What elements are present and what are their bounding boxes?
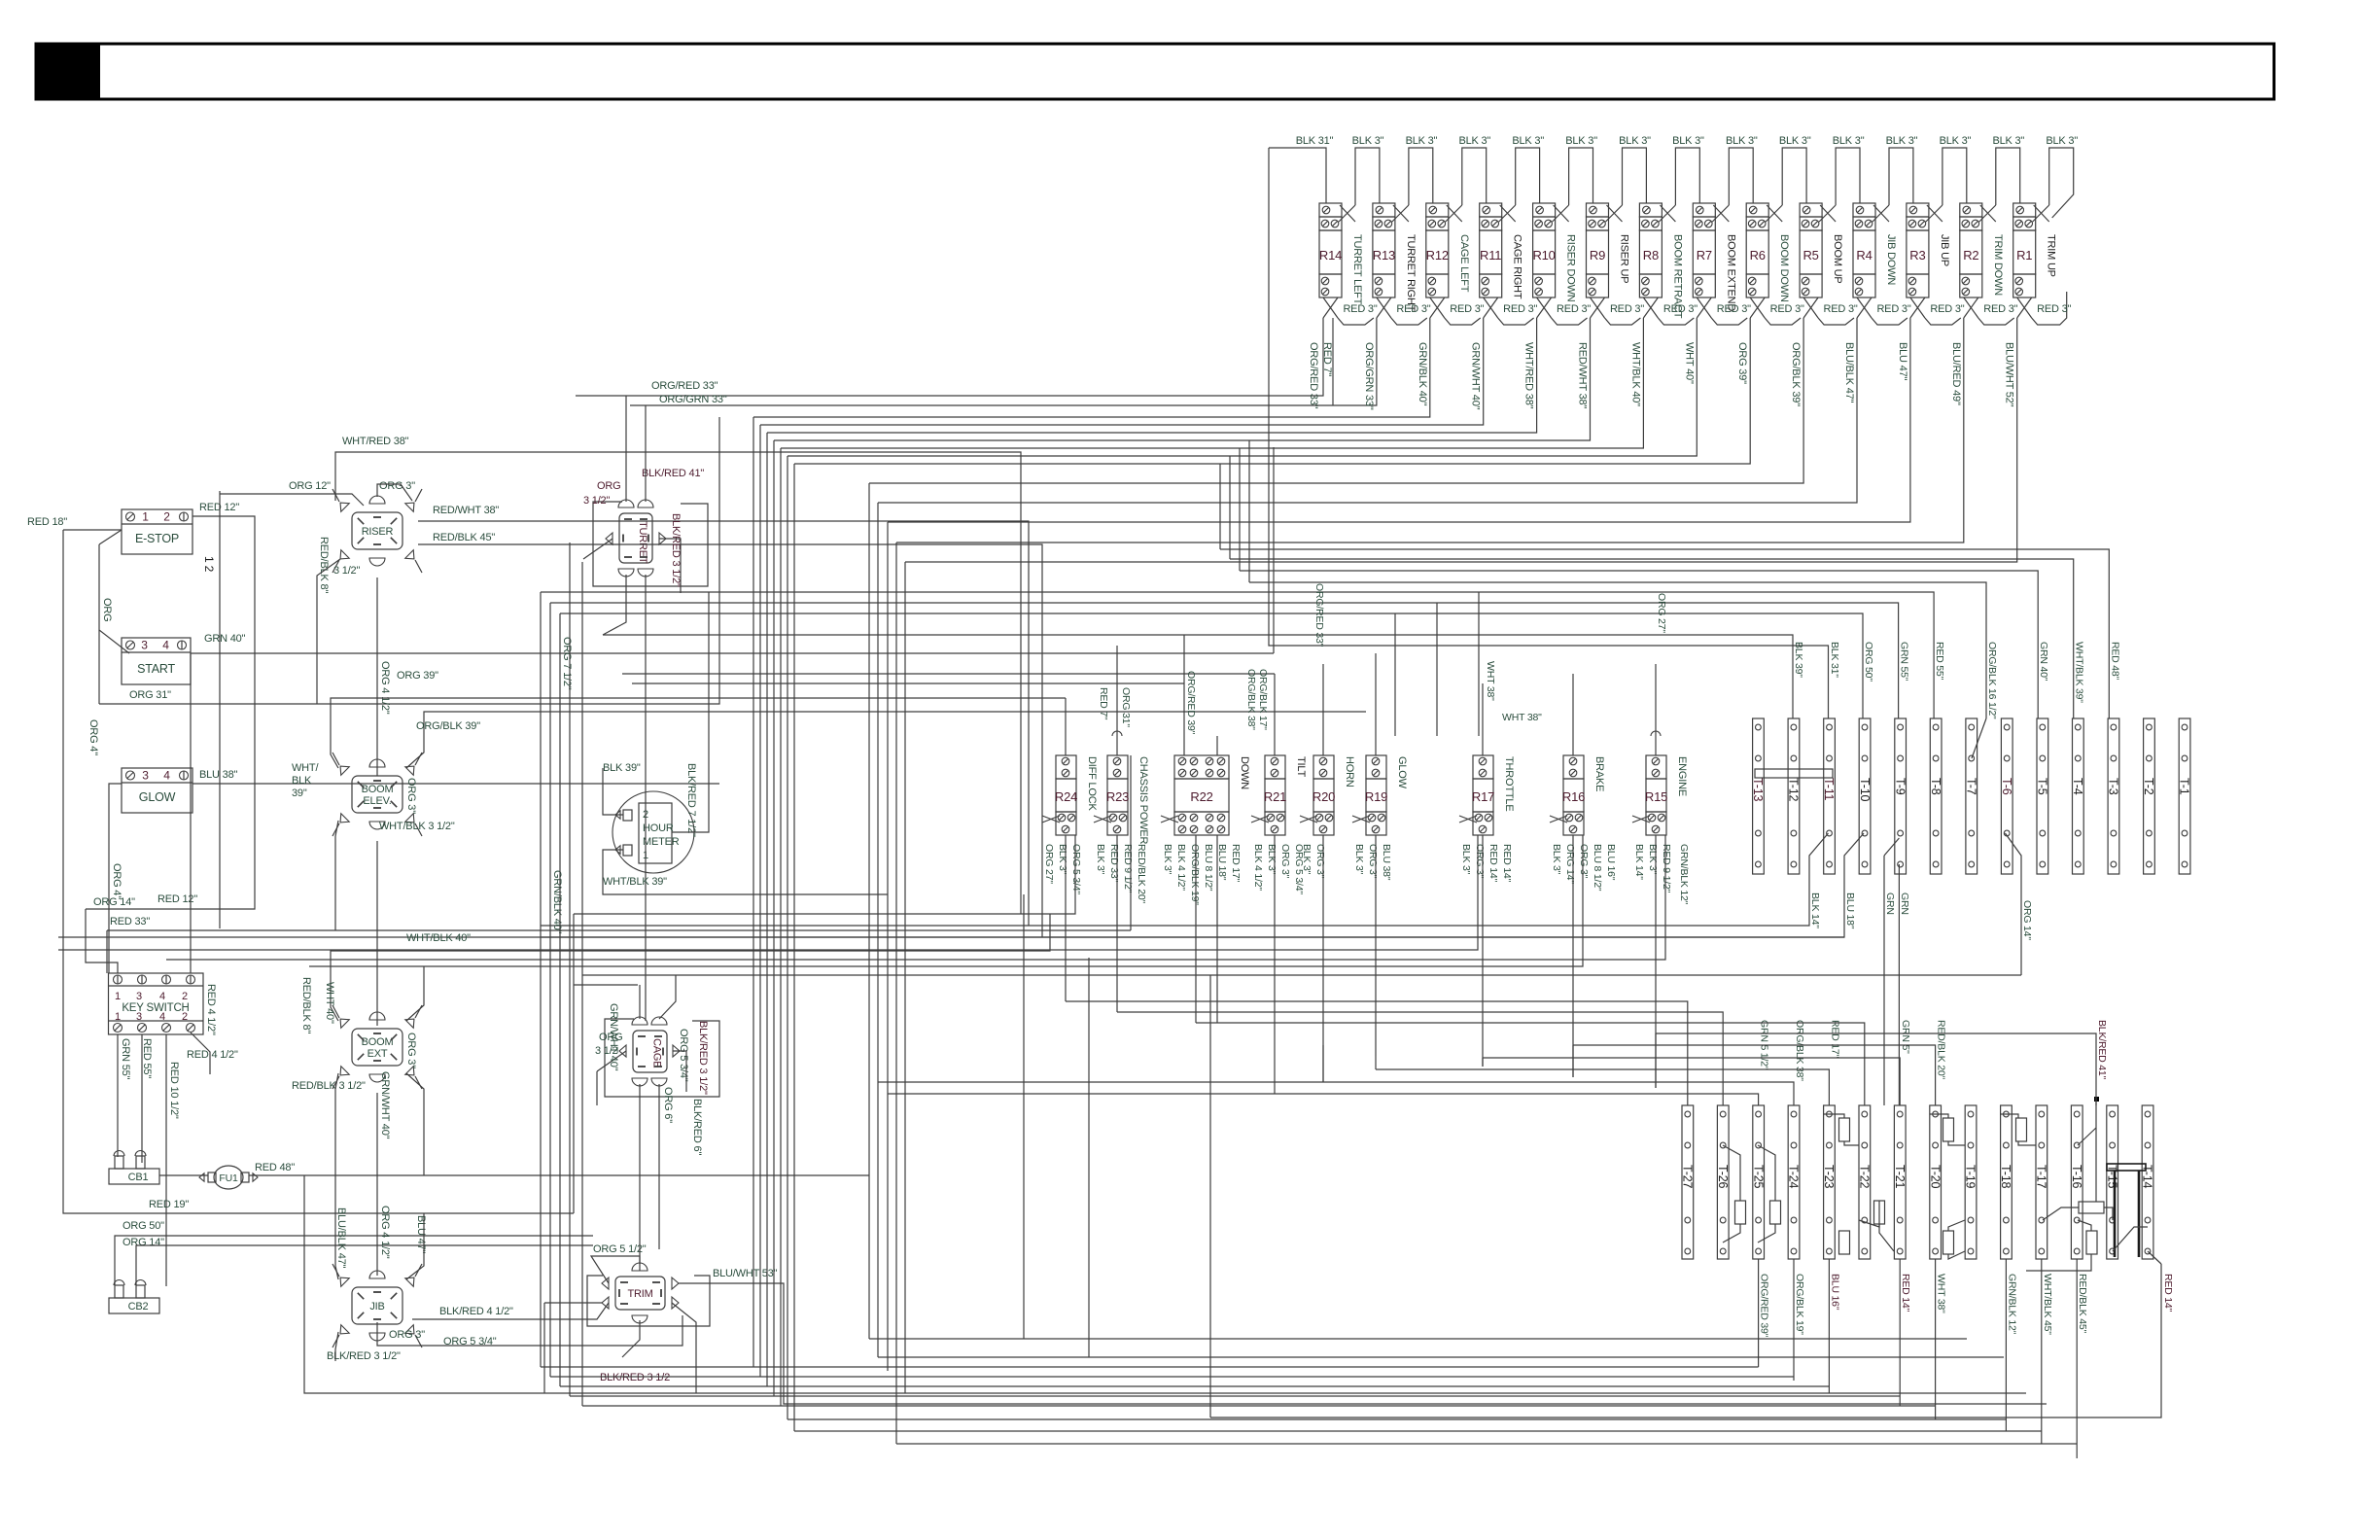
svg-text:WHT/BLK 3 1/2": WHT/BLK 3 1/2" [379,821,455,832]
svg-text:1: 1 [115,991,121,1002]
svg-text:ORG/BLK 38": ORG/BLK 38" [1245,669,1257,730]
svg-text:T-20: T-20 [1928,1165,1942,1188]
svg-text:3 1/2": 3 1/2" [583,495,610,507]
svg-text:39": 39" [292,787,307,799]
svg-text:BLK 4 1/2": BLK 4 1/2" [1252,844,1264,891]
svg-text:BLU 47": BLU 47" [415,1215,427,1253]
svg-text:R16: R16 [1562,789,1585,804]
svg-text:ORG 39": ORG 39" [1736,342,1748,384]
svg-text:BLU 18": BLU 18" [1844,892,1856,929]
svg-text:ORG 3": ORG 3" [1578,844,1590,879]
svg-text:BLU/BLK 47": BLU/BLK 47" [1843,342,1855,403]
svg-text:ORG 39": ORG 39" [397,670,438,682]
svg-text:BLK 4 1/2": BLK 4 1/2" [1175,844,1187,891]
svg-text:HOUR: HOUR [643,822,674,834]
svg-text:R22: R22 [1190,789,1212,804]
svg-text:BLK 3": BLK 3" [1512,135,1544,147]
svg-text:METER: METER [643,836,680,848]
svg-text:RED 14": RED 14" [1900,1274,1911,1312]
svg-text:BOOM: BOOM [362,784,394,795]
svg-text:T-17: T-17 [2035,1165,2048,1188]
svg-text:RED 3": RED 3" [1450,303,1484,315]
svg-text:RED/BLK 20": RED/BLK 20" [1936,1020,1947,1080]
svg-text:RED/BLK 8": RED/BLK 8" [318,537,330,593]
svg-text:ORG/GRN 33": ORG/GRN 33" [659,394,727,405]
svg-text:RISER UP: RISER UP [1619,234,1630,283]
svg-text:BLK 3": BLK 3" [1458,135,1490,147]
svg-text:T-1: T-1 [2178,778,2191,795]
svg-text:3: 3 [142,769,149,783]
svg-text:GRN 5": GRN 5" [1900,1020,1911,1054]
svg-text:GRN 55": GRN 55" [1899,642,1910,682]
svg-text:RED 7": RED 7" [1098,687,1109,720]
svg-text:ORG 3": ORG 3" [389,1329,425,1341]
svg-text:WHT/: WHT/ [292,762,319,774]
svg-text:BLK/RED 6": BLK/RED 6" [691,1099,703,1155]
svg-text:RED 4 1/2": RED 4 1/2" [205,984,217,1035]
svg-text:BLK 3": BLK 3" [1886,135,1918,147]
svg-text:R15: R15 [1645,789,1667,804]
svg-text:BLK 14": BLK 14" [1809,892,1821,928]
svg-text:T-26: T-26 [1716,1165,1730,1188]
svg-text:R8: R8 [1643,248,1659,262]
svg-text:TRIM DOWN: TRIM DOWN [1992,234,2004,296]
svg-text:BLK 3": BLK 3" [1726,135,1758,147]
svg-text:GRN/WHT 40": GRN/WHT 40" [379,1071,391,1139]
svg-text:ORG 50": ORG 50" [1863,642,1874,682]
svg-text:T-4: T-4 [2071,778,2084,795]
svg-text:BLU/BLK 47": BLU/BLK 47" [335,1207,347,1269]
svg-text:R3: R3 [1909,248,1925,262]
svg-text:T-12: T-12 [1787,778,1801,801]
svg-text:T-10: T-10 [1858,778,1872,801]
svg-text:3 1/2": 3 1/2" [333,565,360,577]
svg-text:RED 3": RED 3" [1824,303,1858,315]
svg-text:1 2: 1 2 [202,556,216,573]
svg-text:GRN/WHT 40": GRN/WHT 40" [1470,342,1482,410]
svg-text:WHT/BLK 40": WHT/BLK 40" [1629,342,1641,406]
svg-text:BLK/RED 41": BLK/RED 41" [642,468,704,479]
svg-text:R4: R4 [1856,248,1872,262]
svg-text:JIB UP: JIB UP [1939,234,1950,266]
svg-text:R10: R10 [1532,248,1555,262]
svg-text:R21: R21 [1264,789,1286,804]
svg-text:RED 3": RED 3" [1343,303,1377,315]
svg-text:WHT/RED 38": WHT/RED 38" [342,436,409,447]
svg-text:RED 12": RED 12" [157,893,197,905]
svg-text:R14: R14 [1319,248,1342,262]
svg-text:WHT 40": WHT 40" [1683,342,1695,384]
svg-text:BLK/RED 3 1/2: BLK/RED 3 1/2 [600,1372,670,1383]
svg-text:BLK 31": BLK 31" [1829,642,1840,678]
svg-text:BLU/WHT 53": BLU/WHT 53" [713,1268,778,1279]
svg-text:ELEV.: ELEV. [363,795,391,807]
svg-text:START: START [137,662,175,676]
svg-text:T-9: T-9 [1893,778,1907,795]
svg-text:ORG 3": ORG 3" [405,1032,417,1068]
svg-text:BLU/WHT 52": BLU/WHT 52" [2004,342,2015,407]
svg-text:BOOM EXTEND: BOOM EXTEND [1725,234,1736,311]
svg-text:T-19: T-19 [1964,1165,1977,1188]
svg-text:JIB: JIB [369,1301,384,1312]
svg-text:ORG/BLK 19": ORG/BLK 19" [1794,1274,1805,1335]
svg-text:4: 4 [159,1011,165,1023]
svg-text:3: 3 [136,1011,142,1023]
svg-text:BLK 3": BLK 3" [1833,135,1865,147]
svg-text:RED 55": RED 55" [141,1038,153,1078]
svg-text:THROTTLE: THROTTLE [1503,756,1515,811]
svg-text:RED 3": RED 3" [1876,303,1910,315]
svg-text:BLK 3": BLK 3" [1057,844,1068,875]
svg-text:RED 14": RED 14" [2162,1274,2174,1312]
svg-text:CB1: CB1 [128,1172,149,1183]
svg-text:ORG 6": ORG 6" [662,1087,674,1123]
svg-text:T-11: T-11 [1822,778,1836,801]
svg-text:BLK 39": BLK 39" [1793,642,1804,678]
svg-text:RED 3": RED 3" [1610,303,1644,315]
svg-text:T-21: T-21 [1893,1165,1907,1188]
svg-text:T-13: T-13 [1751,778,1765,801]
svg-text:BLK 3": BLK 3" [1162,844,1173,875]
svg-text:DOWN: DOWN [1239,756,1250,789]
svg-text:T-5: T-5 [2036,778,2049,795]
svg-text:BLK/RED 4 1/2": BLK/RED 4 1/2" [439,1306,513,1317]
svg-text:BLU/RED 49": BLU/RED 49" [1950,342,1962,405]
svg-text:BOOM UP: BOOM UP [1832,234,1843,284]
svg-text:ORG: ORG [599,1032,622,1043]
svg-text:RED 33": RED 33" [1108,844,1120,883]
svg-text:BLU 16": BLU 16" [1829,1274,1840,1311]
svg-text:R17: R17 [1472,789,1494,804]
svg-text:CAGE RIGHT: CAGE RIGHT [1512,234,1523,299]
svg-text:ORG 14": ORG 14" [93,896,135,908]
svg-text:E-STOP: E-STOP [135,532,179,545]
svg-text:T-22: T-22 [1858,1165,1872,1188]
svg-text:RED 3": RED 3" [1396,303,1430,315]
svg-text:BLK 3": BLK 3" [1647,844,1659,875]
svg-text:RED 3": RED 3" [1930,303,1964,315]
svg-text:RED 4 1/2": RED 4 1/2" [187,1049,238,1061]
svg-text:BLK 3": BLK 3" [1095,844,1106,875]
svg-text:ORG/BLK 39": ORG/BLK 39" [416,720,480,732]
svg-text:BLK 3": BLK 3" [2046,135,2078,147]
svg-text:ORG/RED 33": ORG/RED 33" [1308,342,1319,409]
svg-text:BLK: BLK [292,775,312,787]
svg-text:WHT 38": WHT 38" [1485,661,1496,701]
svg-text:ORG: ORG [597,480,620,492]
svg-text:CAGE: CAGE [651,1038,663,1067]
svg-text:GRN: GRN [1884,892,1896,915]
svg-text:JIB DOWN: JIB DOWN [1885,234,1897,285]
svg-text:BLU 16": BLU 16" [1605,844,1617,881]
svg-text:WHT 40": WHT 40" [324,982,335,1024]
svg-text:ORG 4 1/2": ORG 4 1/2" [379,1206,391,1259]
svg-text:BLK 3": BLK 3" [1940,135,1972,147]
svg-text:BLU 47": BLU 47" [1897,342,1908,380]
svg-text:2: 2 [182,1011,188,1023]
svg-text:1: 1 [115,1011,121,1023]
svg-text:R12: R12 [1426,248,1449,262]
svg-text:ORG 5 3/4": ORG 5 3/4" [678,1029,689,1082]
svg-text:BLK/RED 3 1/2": BLK/RED 3 1/2" [697,1021,709,1095]
svg-text:BLK 3": BLK 3" [1551,844,1562,875]
svg-text:1: 1 [142,510,149,524]
svg-text:RISER: RISER [362,526,394,538]
svg-text:BLK 3": BLK 3" [1460,844,1472,875]
svg-text:ORG 5 1/2": ORG 5 1/2" [593,1243,647,1255]
svg-text:FU1: FU1 [219,1172,238,1184]
svg-text:BLK 3": BLK 3" [1301,844,1312,875]
svg-text:CB2: CB2 [128,1301,149,1312]
svg-text:RISER DOWN: RISER DOWN [1565,234,1577,302]
svg-text:RED/BLK 45": RED/BLK 45" [2077,1274,2088,1334]
svg-text:GRN/BLK 12": GRN/BLK 12" [2006,1274,2017,1335]
svg-text:R7: R7 [1697,248,1712,262]
svg-text:BLK 3": BLK 3" [1406,135,1438,147]
svg-text:RED 3": RED 3" [1557,303,1591,315]
svg-text:4: 4 [159,991,165,1002]
svg-text:4: 4 [163,769,170,783]
svg-text:R5: R5 [1802,248,1818,262]
svg-text:R9: R9 [1590,248,1605,262]
svg-text:R2: R2 [1963,248,1978,262]
svg-text:ORG 7 1/2": ORG 7 1/2" [561,637,573,690]
svg-text:T-16: T-16 [2070,1165,2083,1188]
svg-text:RED 3": RED 3" [2037,303,2071,315]
svg-text:R6: R6 [1750,248,1766,262]
svg-text:ENGINE: ENGINE [1676,756,1688,796]
svg-text:RED 3": RED 3" [1663,303,1697,315]
svg-text:ORG/BLK 38": ORG/BLK 38" [1794,1020,1805,1081]
svg-text:R20: R20 [1312,789,1335,804]
svg-text:BLK/RED 3 1/2": BLK/RED 3 1/2" [670,513,682,587]
svg-text:RED/BLK 45": RED/BLK 45" [433,532,495,543]
svg-text:CHASSIS POWER: CHASSIS POWER [1137,756,1149,845]
svg-text:ORG/BLK 16 1/2": ORG/BLK 16 1/2" [1986,642,1998,719]
svg-text:RED 17": RED 17" [1230,844,1242,883]
svg-text:4: 4 [162,639,169,652]
svg-text:ORG 14": ORG 14" [2021,900,2033,940]
svg-text:ORG: ORG [101,598,113,621]
svg-text:R11: R11 [1480,248,1501,262]
svg-text:RED/WHT 38": RED/WHT 38" [433,505,499,516]
svg-text:ORG 3": ORG 3" [1474,844,1486,879]
svg-text:KEY SWITCH: KEY SWITCH [122,1002,189,1014]
svg-text:WHT/BLK 40": WHT/BLK 40" [406,932,471,944]
svg-text:ORG 50": ORG 50" [122,1220,164,1232]
svg-text:ORG 4": ORG 4" [87,719,99,755]
svg-text:BLK 3": BLK 3" [1352,135,1384,147]
svg-text:ORG 3": ORG 3" [405,778,417,814]
svg-text:BLK 3": BLK 3" [1353,844,1365,875]
svg-text:RED 17": RED 17" [1829,1020,1840,1059]
svg-text:ORG/RED 33": ORG/RED 33" [1313,583,1325,647]
svg-text:ORG 3": ORG 3" [379,480,415,492]
svg-text:BLU 38": BLU 38" [1381,844,1392,881]
svg-text:GLOW: GLOW [1396,756,1408,789]
svg-text:RED/BLK 20": RED/BLK 20" [1136,844,1147,904]
svg-text:RED 3": RED 3" [1983,303,2017,315]
svg-text:RED 9 1/2": RED 9 1/2" [1661,844,1672,893]
svg-text:RED 10 1/2": RED 10 1/2" [168,1062,180,1119]
svg-text:GRN/BLK 40": GRN/BLK 40" [551,870,563,934]
svg-text:BLK/RED 3 1/2": BLK/RED 3 1/2" [327,1350,401,1362]
svg-text:CAGE LEFT: CAGE LEFT [1458,234,1470,293]
svg-text:T-6: T-6 [2000,778,2013,795]
svg-text:ORG 31": ORG 31" [1120,687,1132,727]
svg-text:WHT/BLK 45": WHT/BLK 45" [2042,1274,2053,1335]
svg-text:ORG 3": ORG 3" [1279,844,1291,879]
svg-text:HORN: HORN [1344,756,1355,787]
svg-text:T-8: T-8 [1929,778,1942,795]
svg-text:BOOM: BOOM [362,1036,394,1048]
svg-text:T-14: T-14 [2141,1165,2154,1188]
svg-text:BLK 3": BLK 3" [1565,135,1597,147]
svg-text:R24: R24 [1055,789,1077,804]
svg-text:BLK/RED 7 1/2": BLK/RED 7 1/2" [685,763,697,837]
svg-text:T-7: T-7 [1964,778,1977,795]
svg-text:RED 48": RED 48" [2109,642,2120,681]
svg-text:WHT 38": WHT 38" [1936,1274,1947,1313]
svg-text:T-25: T-25 [1751,1165,1765,1188]
svg-text:BLU 8 1/2": BLU 8 1/2" [1203,844,1214,892]
svg-text:RED 3": RED 3" [1770,303,1804,315]
svg-text:ORG/GRN 33": ORG/GRN 33" [1363,342,1375,410]
svg-text:GRN: GRN [1899,892,1910,915]
svg-text:GRN 55": GRN 55" [120,1038,131,1080]
svg-text:BLK 3": BLK 3" [1619,135,1651,147]
svg-text:BLU 18": BLU 18" [1216,844,1228,881]
svg-text:R1: R1 [2016,248,2032,262]
svg-text:GRN 40": GRN 40" [2038,642,2049,682]
svg-text:RED 55": RED 55" [1934,642,1945,681]
svg-text:RED 14": RED 14" [1487,844,1499,883]
svg-text:RED 48": RED 48" [255,1162,295,1173]
svg-text:BLU 8 1/2": BLU 8 1/2" [1592,844,1603,892]
svg-text:TURRET LEFT: TURRET LEFT [1351,234,1363,305]
svg-text:BLK 3": BLK 3" [1992,135,2024,147]
svg-text:ORG 27": ORG 27" [1043,844,1055,884]
svg-text:T-24: T-24 [1787,1165,1801,1188]
svg-text:ORG/RED 39": ORG/RED 39" [1759,1274,1770,1338]
svg-text:RED 9 1/2": RED 9 1/2" [1122,844,1134,893]
svg-text:BLK 31": BLK 31" [1296,135,1334,147]
svg-text:ORG 5 3/4": ORG 5 3/4" [1070,844,1082,894]
svg-text:T-23: T-23 [1822,1165,1836,1188]
svg-text:ORG/BLK 39": ORG/BLK 39" [1790,342,1802,406]
svg-text:GRN/BLK 12": GRN/BLK 12" [1678,844,1690,905]
svg-text:ORG/RED 33": ORG/RED 33" [651,380,718,392]
svg-text:BRAKE: BRAKE [1593,756,1605,791]
svg-text:TURRET RIGHT: TURRET RIGHT [1405,234,1417,312]
svg-text:T-27: T-27 [1681,1165,1695,1188]
svg-text:ORG 3": ORG 3" [1367,844,1379,879]
svg-text:ORG 12": ORG 12" [289,480,331,492]
svg-text:GRN/BLK 40": GRN/BLK 40" [1417,342,1428,406]
svg-text:GRN 40": GRN 40" [204,633,246,645]
svg-text:BLK 3": BLK 3" [1672,135,1704,147]
svg-text:DIFF LOCK: DIFF LOCK [1086,756,1098,812]
svg-text:WHT 38": WHT 38" [1502,712,1542,723]
svg-text:ORG 31": ORG 31" [129,689,171,701]
svg-text:WHT/BLK 39": WHT/BLK 39" [2074,642,2085,703]
svg-text:3 1/2: 3 1/2 [595,1045,618,1057]
svg-text:RED 18": RED 18" [27,516,67,528]
svg-text:ORG 4 1/2": ORG 4 1/2" [379,661,391,715]
svg-text:R13: R13 [1373,248,1395,262]
svg-text:R23: R23 [1106,789,1129,804]
svg-text:BLK 3": BLK 3" [1779,135,1811,147]
svg-text:RED/WHT 38": RED/WHT 38" [1577,342,1589,408]
svg-text:RED/BLK 8": RED/BLK 8" [300,977,312,1033]
svg-text:BLU 38": BLU 38" [199,769,237,781]
svg-text:2: 2 [163,510,170,524]
svg-text:T-3: T-3 [2107,778,2120,795]
svg-text:TRIM: TRIM [627,1288,652,1300]
svg-text:BLK 14": BLK 14" [1633,844,1645,880]
svg-text:RED 3": RED 3" [1503,303,1537,315]
svg-text:2: 2 [182,991,188,1002]
svg-text:RED 19": RED 19" [149,1199,189,1210]
svg-text:RED 14": RED 14" [1501,844,1513,883]
svg-text:ORG 4": ORG 4" [111,863,122,899]
svg-text:BOOM DOWN: BOOM DOWN [1778,234,1790,302]
svg-text:3: 3 [136,991,142,1002]
svg-text:ORG 27": ORG 27" [1656,593,1667,633]
svg-text:ORG 3": ORG 3" [1314,844,1326,879]
svg-text:RED 3": RED 3" [1717,303,1751,315]
svg-text:ORG 14": ORG 14" [1564,844,1576,884]
svg-text:BLK 3": BLK 3" [1266,844,1277,875]
svg-text:3: 3 [141,639,148,652]
svg-text:TRIM UP: TRIM UP [2046,234,2057,277]
svg-text:ORG/BLK 19": ORG/BLK 19" [1189,844,1201,905]
svg-text:TILT: TILT [1295,756,1307,777]
svg-text:EXT: EXT [367,1048,388,1060]
svg-text:RED/BLK 3 1/2": RED/BLK 3 1/2" [292,1080,366,1092]
svg-text:BLK 39": BLK 39" [603,762,641,774]
svg-text:ORG/BLK 17": ORG/BLK 17" [1257,669,1269,730]
svg-text:R19: R19 [1365,789,1387,804]
svg-text:BLK/RED 41": BLK/RED 41" [2096,1020,2108,1080]
svg-text:WHT/BLK 39": WHT/BLK 39" [603,876,667,888]
svg-text:RED 7": RED 7" [1321,342,1333,376]
svg-text:RED 33": RED 33" [110,916,150,927]
svg-text:ORG/RED 39": ORG/RED 39" [1185,671,1197,735]
svg-text:ORG 14": ORG 14" [122,1237,164,1248]
svg-text:T-18: T-18 [1999,1165,2012,1188]
svg-text:WHT/RED 38": WHT/RED 38" [1523,342,1535,409]
svg-text:T-2: T-2 [2142,778,2155,795]
svg-text:GLOW: GLOW [139,790,176,804]
